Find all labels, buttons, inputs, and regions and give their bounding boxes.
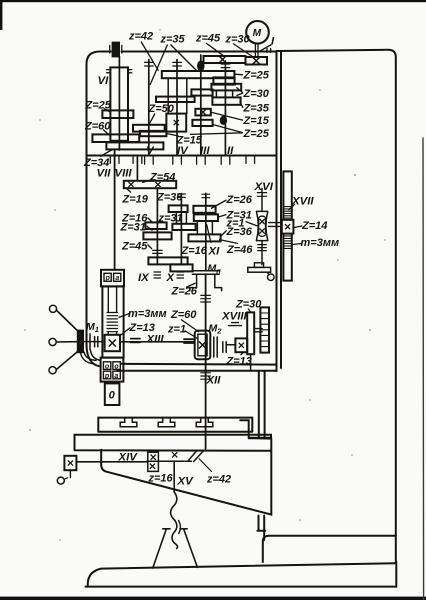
svg-text:Z=31: Z=31: [120, 222, 146, 234]
gear bar on IV: [156, 97, 195, 102]
leader z=16 mid2: [148, 218, 154, 224]
tool box 0: [111, 382, 113, 384]
jaw clutch marks on XIII b: [184, 339, 193, 343]
leader z=42 low: [199, 458, 212, 471]
svg-text:Z=54: Z=54: [149, 172, 175, 184]
gear bar XI b: [194, 214, 218, 221]
leader z=31 right: [219, 215, 227, 218]
gear bar on III b: [195, 109, 210, 116]
svg-text:Z=45: Z=45: [121, 241, 148, 253]
leader z=13 low: [241, 353, 244, 356]
cross spindle clutch: [109, 339, 116, 346]
gearbox inner corner arc: [91, 350, 101, 360]
XVI lower hatches: [258, 245, 267, 251]
shaft VI sleeve: [110, 67, 128, 140]
shaft VI top tip: [113, 43, 119, 57]
gear bar XI a: [193, 206, 215, 213]
leader z=60: [181, 320, 199, 333]
svg-text:Z=35: Z=35: [243, 103, 270, 115]
sleeve XVII: [283, 171, 291, 280]
leader z=13 left: [120, 328, 131, 337]
gear z=50 mate on V: [133, 125, 165, 132]
leader m=3mm left: [119, 314, 130, 318]
gear z=34 bar: [106, 142, 163, 149]
svg-text:XVII: XVII: [291, 196, 314, 208]
knee (table bracket) outline: [101, 420, 271, 514]
leader z=54: [142, 180, 153, 183]
T-slot 2: [158, 418, 175, 427]
base slab top: [88, 563, 396, 586]
svg-text:Z=60: Z=60: [84, 121, 111, 133]
leader z=35 right: [240, 101, 243, 107]
handwheel stem: [69, 470, 71, 477]
shaft V: [148, 60, 150, 156]
worm unit inner: [198, 334, 207, 356]
hook ring: [57, 477, 64, 484]
A-frame support: [153, 529, 198, 568]
leader z=1 low: [185, 331, 198, 339]
gearbox bottom edge: [118, 370, 277, 372]
clutch box on IV: [166, 114, 186, 132]
bearing brackets below mid line: [110, 157, 254, 165]
svg-text:Z=50: Z=50: [148, 103, 175, 115]
shaft XI: [205, 193, 207, 270]
leader z=26 clutch: [186, 283, 196, 288]
XVIII axis mark: [229, 323, 242, 326]
svg-text:Z=13: Z=13: [226, 356, 252, 368]
spindle rack hatch: [107, 313, 117, 332]
leader z=45: [206, 43, 224, 56]
svg-text:z=31: z=31: [158, 213, 183, 225]
leader I: [259, 45, 272, 52]
svg-text:p: p: [105, 275, 111, 282]
leader z=31 left: [147, 226, 153, 231]
svg-text:o: o: [114, 363, 119, 370]
shaft III top bearing blob: [198, 62, 203, 71]
gear bar on III a: [191, 89, 212, 95]
svg-text:XVIII: XVIII: [221, 311, 248, 323]
leader XI: [207, 224, 212, 243]
leader z=35 a: [150, 45, 168, 86]
shaft II blob: [221, 117, 226, 124]
motor M circle: [246, 21, 269, 44]
svg-text:Z=15: Z=15: [243, 115, 270, 127]
svg-text:XIII: XIII: [146, 334, 165, 346]
hatches by IX label: [154, 272, 162, 278]
spindle head top box: [101, 270, 124, 287]
cross gear III b: [200, 110, 205, 115]
friction clutch Mp: [190, 271, 222, 291]
base pedestal: [263, 536, 396, 562]
rack hatch on XVII: [283, 236, 291, 249]
svg-text:IX: IX: [138, 272, 150, 284]
svg-text:XIV: XIV: [118, 452, 139, 464]
table top T-slot bar: [98, 418, 252, 432]
svg-text:Z=16: Z=16: [181, 245, 208, 257]
leader z=45 left: [148, 245, 153, 250]
connector XVI to XVII: [269, 223, 284, 227]
leader z=30: [233, 44, 253, 58]
table body box: [75, 435, 272, 451]
svg-text:Z=36: Z=36: [226, 226, 253, 238]
svg-text:Z=19: Z=19: [122, 194, 149, 206]
gear bar X lower: [172, 224, 195, 230]
leader XVII: [289, 204, 296, 210]
svg-text:Z=25: Z=25: [243, 70, 270, 82]
cross z=13 box: [239, 343, 244, 348]
svg-text:Z=25: Z=25: [243, 128, 270, 140]
spindle clutch box: [105, 335, 120, 351]
leader m=3mm right: [293, 244, 302, 245]
leader z=35 b: [171, 45, 198, 72]
gearbox mid dividing line: [87, 155, 277, 157]
gear z=25 on VI: [102, 110, 133, 118]
svg-text:Z=26: Z=26: [171, 286, 198, 298]
gear z=15 under clutch: [140, 131, 166, 136]
handwheel XIV: [64, 456, 76, 470]
svg-text:Z=26: Z=26: [226, 194, 253, 206]
clutch box on XVII: [282, 220, 294, 234]
big gear bar on III/IV: [162, 71, 235, 78]
shaft III: [200, 55, 202, 156]
svg-text:z=45: z=45: [195, 33, 221, 45]
svg-text:0: 0: [109, 390, 116, 402]
crosses on shaft I bars: [219, 56, 226, 63]
sleeve VI bearing ticks: [107, 70, 132, 73]
leader z=34: [100, 150, 112, 157]
gear bar on III c: [192, 120, 212, 126]
leader z=30 right: [236, 87, 243, 95]
spindle lower box: [101, 358, 124, 382]
svg-text:z=16: z=16: [148, 473, 174, 485]
svg-text:M: M: [253, 28, 262, 39]
svg-text:X: X: [166, 272, 176, 284]
leader z=15 right: [212, 112, 243, 120]
shaft X top bearing: [178, 194, 186, 197]
cross worm z=1: [199, 341, 206, 348]
bevel left box: [148, 452, 159, 471]
shaft II bearing ticks: [221, 64, 230, 68]
svg-text:VII: VII: [97, 168, 112, 180]
cross clutch IV: [174, 120, 179, 125]
shaft XII: [205, 274, 207, 450]
crosses on bevel unit: [172, 452, 177, 457]
shaft XVI: [261, 188, 263, 264]
svg-text:m=3мм: m=3мм: [301, 237, 340, 249]
shaft V bearing ticks: [145, 62, 154, 66]
gear bar IX bottom: [148, 257, 187, 264]
svg-text:III: III: [200, 145, 210, 157]
elevating rack: [260, 307, 269, 352]
leader z=25b right: [190, 124, 243, 134]
XVI pedestal: [254, 263, 263, 268]
svg-text:IV: IV: [177, 145, 189, 157]
guide below knee: [257, 516, 265, 541]
shaft XVIII stub: [250, 354, 252, 371]
leader z=14: [294, 226, 303, 228]
cross on XVII clutch: [285, 224, 290, 229]
shaft XI top bearing: [202, 194, 210, 198]
svg-text:Z=60: Z=60: [170, 309, 197, 321]
joint marks: [255, 329, 262, 332]
leader z=30 low: [248, 309, 251, 313]
shaft XII hatches: [201, 295, 211, 379]
T-slot 3: [196, 418, 213, 427]
gear z=13 box: [235, 338, 247, 352]
gear bar IX b: [143, 232, 171, 239]
shaft X: [180, 194, 182, 265]
conduit arcs: [80, 352, 96, 364]
leader z=36 right: [221, 231, 227, 237]
shaft XV vertical: [173, 461, 175, 492]
crosses on worm wheel XVI: [260, 219, 265, 224]
shaft II: [224, 61, 226, 156]
svg-text:VI: VI: [98, 75, 110, 87]
shaft VII long: [114, 150, 116, 270]
lifting screw wavy: [171, 492, 178, 549]
gearbox housing outline: [87, 52, 277, 372]
svg-text:Z=36: Z=36: [156, 192, 183, 204]
svg-text:Z=14: Z=14: [301, 220, 327, 232]
worm hatch on XVII: [283, 207, 291, 219]
column left edge: [280, 52, 282, 368]
screw curl: [179, 521, 181, 534]
gear bar on II c: [212, 97, 240, 104]
svg-text:XI: XI: [208, 246, 221, 258]
shaft IX: [156, 188, 158, 264]
gear bar on II a: [213, 77, 234, 84]
shaft VIII: [136, 156, 138, 181]
gear bar X upper: [169, 205, 188, 212]
svg-text:p: p: [104, 373, 110, 380]
leader z=19: [126, 188, 131, 193]
sleeve on XI: [197, 221, 212, 234]
leader z=25 right: [235, 73, 243, 76]
svg-text:z=30: z=30: [225, 34, 251, 46]
sleeve on IV: [168, 78, 187, 113]
shaft IX bottom hatches: [153, 250, 163, 253]
leader z=46: [219, 240, 238, 244]
pedestal drop: [267, 272, 269, 274]
handle knobs: [49, 305, 56, 312]
spindle frame: [102, 286, 123, 357]
shaft VI line: [118, 57, 120, 150]
column top edge and right edge: [277, 50, 396, 562]
svg-text:VIII: VIII: [115, 168, 133, 180]
gear bar XI c: [188, 234, 220, 241]
leader z=42: [141, 42, 159, 71]
svg-text:z=35: z=35: [160, 34, 186, 46]
page border bottom: [0, 597, 426, 600]
svg-text:Z=13: Z=13: [129, 322, 155, 334]
leader z=1 worm: [246, 222, 258, 227]
bearing bracket at corner: [267, 49, 271, 53]
crosses on z=54 bar: [128, 182, 133, 187]
gear bar on II b: [211, 84, 241, 91]
base slab bottom: [86, 562, 397, 587]
page border top: [0, 0, 426, 2]
svg-text:o: o: [105, 363, 110, 370]
leader z=15 mid: [167, 134, 179, 137]
shaft IV bearing ticks: [173, 62, 182, 66]
shaft XIV horizontal: [76, 461, 147, 463]
leader z=50: [148, 114, 155, 127]
leader z=26 right: [211, 200, 227, 209]
T-slot 1: [120, 418, 137, 427]
svg-text:a: a: [114, 373, 118, 380]
svg-text:II: II: [227, 145, 234, 157]
worm wheel on XVI: [256, 211, 267, 240]
gear bar X bottom: [170, 264, 192, 271]
svg-text:XVI: XVI: [254, 181, 274, 193]
sleeve on X: [176, 212, 186, 224]
shaft I gear bar right: [246, 57, 268, 65]
clutch M2: [214, 337, 236, 357]
svg-text:m=3мм: m=3мм: [128, 308, 167, 320]
svg-text:z=42: z=42: [206, 474, 231, 486]
motor shaft: [255, 44, 258, 57]
svg-text:z=1: z=1: [167, 324, 186, 336]
worm unit z=60/z=1 outer: [195, 331, 211, 360]
page border left tick: [0, 0, 2, 30]
gear z=60 on VI: [92, 134, 139, 142]
gearbox bottom inner line: [121, 363, 277, 366]
scan speckles: [24, 29, 385, 541]
svg-text:z=42: z=42: [128, 31, 153, 43]
gear bar IX a: [145, 222, 166, 229]
shaft XIII horizontal: [105, 341, 195, 343]
svg-text:a: a: [115, 275, 119, 282]
gear z=30 tall: [247, 312, 254, 354]
hatches by X label: [177, 272, 185, 278]
svg-text:XV: XV: [177, 476, 195, 488]
page edge line right: [422, 138, 425, 600]
bevel unit XV: [147, 450, 204, 461]
column front guide lines: [259, 371, 265, 438]
shaft IV: [176, 60, 178, 156]
leader z=60 left: [103, 130, 110, 136]
svg-text:XII: XII: [206, 375, 222, 387]
sleeve on II: [216, 90, 232, 97]
svg-text:Z=30: Z=30: [243, 88, 270, 100]
svg-text:Z=46: Z=46: [226, 244, 253, 256]
leader z=25 left: [104, 109, 111, 113]
gear z=54 bar: [124, 181, 176, 188]
shaft XVI top bearing: [257, 193, 266, 197]
svg-text:Z=30: Z=30: [235, 299, 262, 311]
svg-text:Z=25: Z=25: [85, 100, 112, 112]
motor M1 flange: [78, 331, 83, 353]
shaft I gear bar left: [204, 56, 246, 63]
jaw clutch marks on XIII a: [131, 339, 140, 343]
handle rods: [56, 310, 83, 370]
M1 clutch: [83, 334, 105, 350]
